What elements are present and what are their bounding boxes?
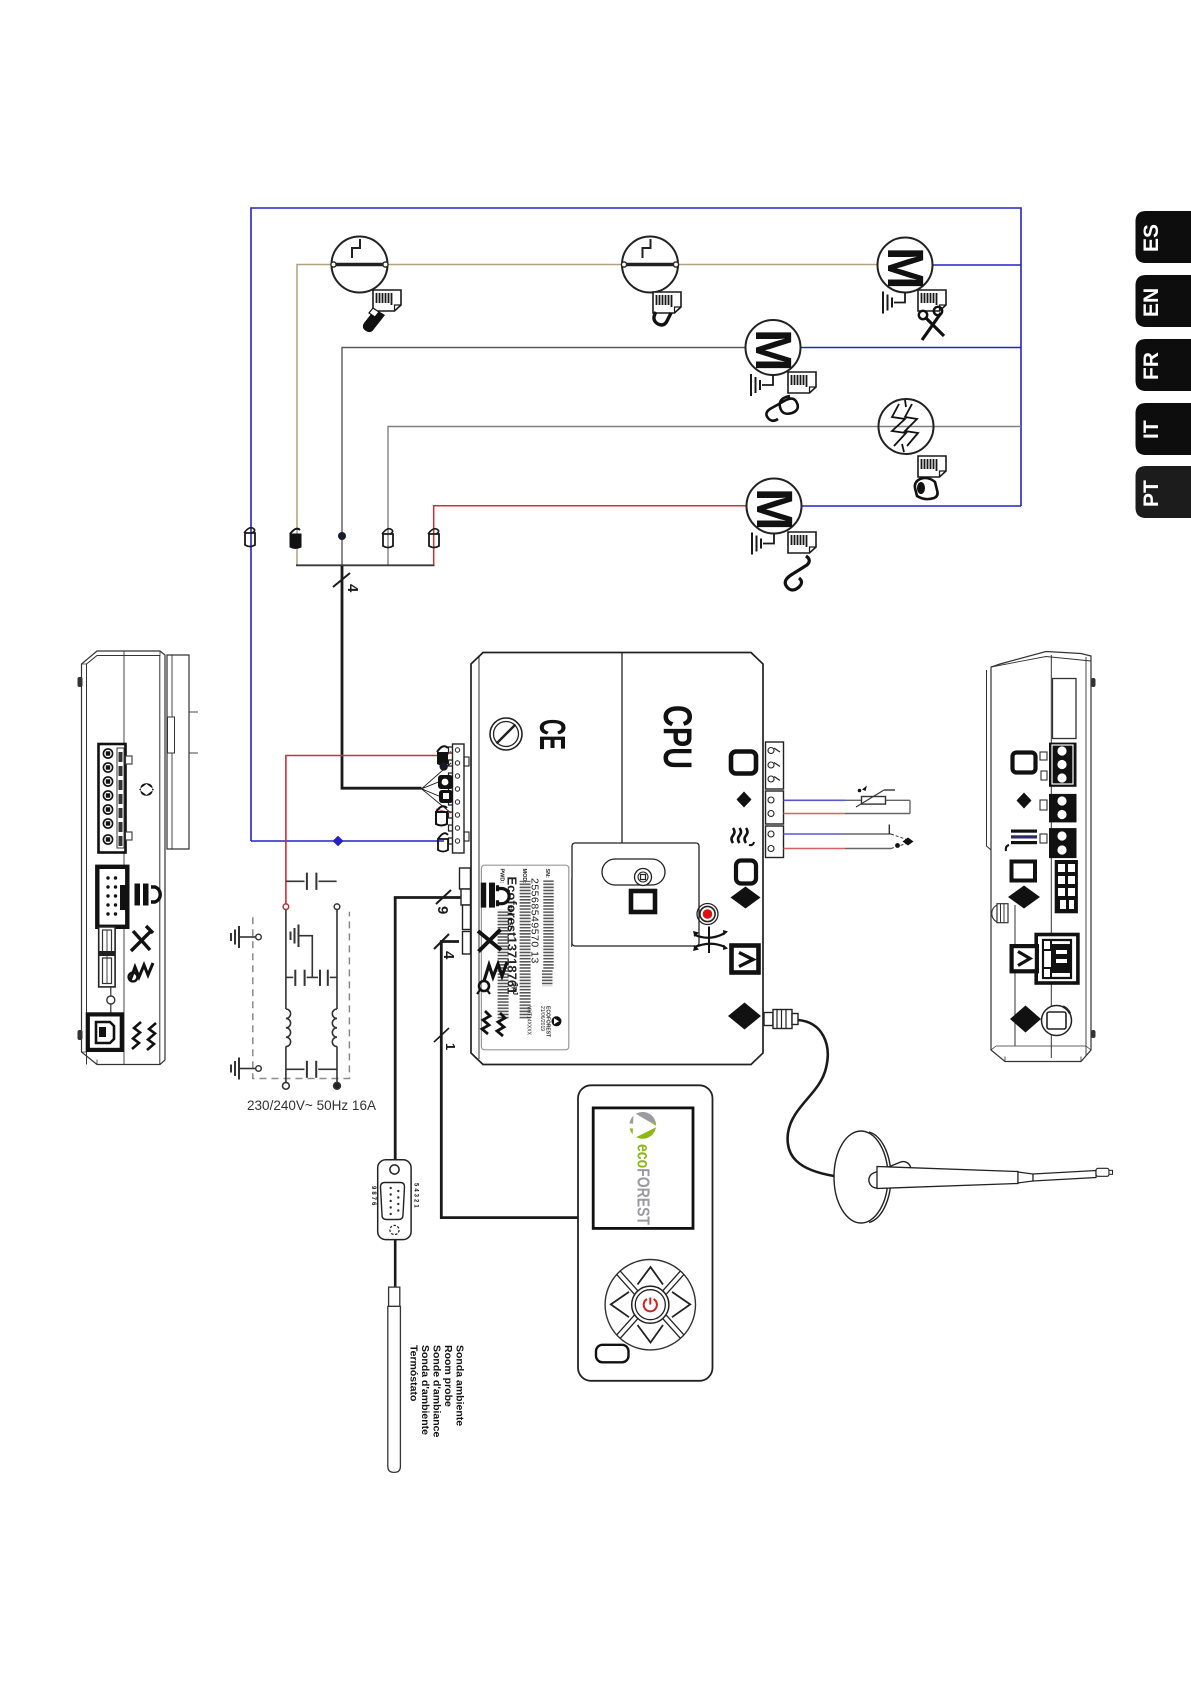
doc icon M1 scissors [918, 290, 946, 340]
svg-text:4: 4 [440, 951, 457, 960]
red fan to strip [436, 751, 451, 813]
ground motor M1 [883, 292, 905, 314]
connector housing at strip [438, 775, 453, 803]
CPU enclosure inner seam [479, 653, 755, 1060]
capacitors CY mid pair [286, 970, 337, 986]
filter line N vertical [336, 910, 338, 1083]
doc icon igniter [915, 456, 946, 499]
smoke probe flange [834, 1131, 891, 1223]
svg-text:230/240V~ 50Hz 16A: 230/240V~ 50Hz 16A [247, 1098, 376, 1113]
safety thermostat switch 1 [331, 237, 388, 293]
right panel nub bottom [1091, 1030, 1096, 1038]
ground motor M3 [752, 533, 774, 555]
faston at strip lower [436, 806, 447, 825]
ash icon [736, 861, 756, 884]
DB9 connector body [378, 1160, 411, 1240]
display handset body [578, 1085, 713, 1381]
left panel zigzag icon [129, 963, 153, 981]
DB9 pins [390, 1187, 400, 1215]
doc icon M3 hook [785, 532, 816, 590]
svg-text:VHT14XXXX: VHT14XXXX [526, 1006, 532, 1036]
svg-text:21/06/2019: 21/06/2019 [539, 1006, 545, 1031]
wire red to motor M3 [434, 506, 774, 565]
wire olive phase through switches [297, 265, 905, 566]
svg-text:CPU: CPU [655, 705, 699, 769]
diamond mid [731, 887, 761, 909]
relay window [631, 891, 655, 912]
svg-text:Sonde d'ambiance: Sonde d'ambiance [431, 1345, 443, 1438]
DB9 shell [381, 1183, 405, 1220]
smoke probe connector [764, 1010, 798, 1029]
svg-text:M: M [746, 488, 803, 530]
room probe sleeve [389, 1287, 400, 1306]
language tab ES [1136, 211, 1191, 263]
svg-text:1: 1 [443, 1043, 458, 1050]
motor M2 auger [745, 320, 802, 375]
EMI filter dashed enclosure [253, 912, 350, 1079]
ecoforest logo mark [626, 1109, 658, 1141]
convection icon [693, 927, 728, 954]
filter terminal N top [334, 904, 340, 910]
bundle marker 4 [333, 573, 361, 593]
smoke probe handle [867, 1159, 914, 1190]
wire gray to motor M2 [342, 348, 773, 566]
silkscreen X [478, 930, 501, 952]
left panel IDC connector [97, 867, 127, 927]
CPU enclosure [471, 653, 763, 1065]
language tab IT [1136, 403, 1191, 455]
diamond small [737, 792, 752, 808]
filter line L vertical [285, 910, 287, 1083]
diamond bottom [728, 1003, 761, 1030]
svg-text:Sonda ambiente: Sonda ambiente [454, 1345, 466, 1426]
room probe wire below DB9 [394, 1240, 397, 1289]
smoke probe cable [788, 1020, 834, 1176]
left panel ground icon [135, 884, 161, 906]
hopper icon [731, 752, 756, 774]
room probe tip [889, 825, 913, 849]
right panel terminal block B [1049, 794, 1077, 823]
right panel knob [992, 904, 1008, 923]
left panel bracket [167, 655, 198, 849]
faston terminal on blue wire [244, 528, 255, 547]
svg-text:9876: 9876 [370, 1186, 376, 1207]
display port 4p [463, 932, 471, 955]
CPU area divider [621, 653, 623, 844]
right panel stripe icon [1006, 830, 1037, 852]
svg-text:PT: PT [1140, 480, 1163, 507]
svg-text:SN:: SN: [544, 869, 550, 879]
status LED [697, 904, 718, 925]
silkscreen omega [477, 981, 490, 994]
right panel door [1053, 679, 1077, 739]
output terminal group C [766, 826, 784, 858]
board edge line [571, 878, 573, 947]
wire fan to strip [422, 763, 452, 813]
left panel thermostat icon [131, 926, 153, 951]
NTC probe wires [784, 800, 911, 813]
ground motor M2 [751, 374, 773, 396]
igniter resistor [879, 399, 934, 454]
right panel terminal block A [1049, 743, 1077, 787]
right panel grid connector [1055, 860, 1078, 913]
capacitor CX bottom [286, 1061, 337, 1078]
right panel hopper icon [1013, 753, 1036, 773]
feed icon [732, 946, 759, 973]
inductor L1 [286, 1009, 291, 1047]
right panel screw nub [1091, 678, 1096, 687]
motor M3 exchanger fan [746, 479, 803, 534]
cover screw [490, 718, 522, 750]
left panel screw top [78, 677, 83, 687]
junction dot [338, 532, 346, 540]
capacitor CX top [286, 873, 337, 890]
blue wire arrow marker [333, 836, 344, 846]
svg-text:ES: ES [1140, 224, 1163, 252]
right panel inner line [1014, 905, 1016, 1046]
fume icon [732, 828, 755, 845]
faston blue at strip [438, 833, 448, 851]
right panel diamond B [1008, 886, 1040, 909]
wire blue mains loop [251, 208, 1021, 841]
mains terminal strip [449, 744, 470, 853]
language tab EN [1136, 275, 1191, 327]
wire blue motor M1 to bus [905, 264, 1021, 266]
silkscreen ground bars [481, 883, 495, 908]
faston terminal on olive wire [290, 529, 301, 549]
faston terminal on igniter wire [382, 529, 393, 548]
wire blue neutral to CPU connector [251, 840, 444, 842]
left panel mains connector [99, 744, 133, 853]
room probe body [388, 1306, 401, 1472]
right panel diamond C [1010, 1006, 1041, 1033]
motor M1 extractor [877, 238, 934, 293]
navigation pad [605, 1260, 695, 1350]
left panel usb link [107, 987, 115, 1015]
language tab FR [1136, 339, 1191, 391]
bundle marker 9 [434, 890, 451, 914]
junction dot at strip [440, 762, 448, 770]
left panel wave icons [132, 1022, 156, 1050]
svg-text:ecoFOREST: ecoFOREST [634, 1144, 654, 1225]
language tab PT [1136, 466, 1191, 518]
doc icon M2 spring [766, 372, 816, 421]
right panel diamond A [1017, 793, 1032, 809]
svg-text:Termóstato: Termóstato [408, 1345, 420, 1401]
relay cover [572, 843, 699, 946]
junction bus bar [296, 564, 435, 566]
display cable 9x [395, 898, 470, 1160]
wire blue motor M2 to bus [773, 347, 1021, 349]
output terminal group A [766, 742, 784, 789]
svg-text:4: 4 [344, 584, 361, 593]
bundle marker 4b [434, 934, 457, 960]
bundle marker 1 [434, 1028, 458, 1050]
right panel feed icon [1012, 946, 1037, 971]
display cable 4x [441, 942, 577, 1218]
svg-text:M: M [877, 247, 934, 289]
room probe wires [784, 834, 892, 849]
silkscreen squiggle b [497, 1013, 505, 1036]
svg-text:3P0 0.5C: 3P0 0.5C [506, 905, 512, 931]
relay slot oval [602, 859, 665, 885]
left panel mini-USB [88, 1014, 122, 1050]
display screen [593, 1108, 693, 1229]
doc icon switch 1 [363, 290, 401, 332]
left panel edge connector [99, 927, 115, 987]
NTC thermistor [856, 786, 895, 808]
doc icon switch 2 [653, 292, 681, 325]
relay screw [635, 869, 652, 886]
svg-text:M: M [745, 329, 802, 371]
silkscreen zigzag M [484, 962, 507, 981]
silkscreen squiggle a [482, 1011, 490, 1034]
left panel body [82, 651, 166, 1065]
svg-text:Sonda d'ambiente: Sonda d'ambiente [419, 1345, 431, 1435]
svg-text:CE: CE [532, 719, 573, 750]
filter mid ground [291, 925, 313, 978]
left panel screw bottom [78, 1030, 83, 1040]
svg-text:3pJ: 3pJ [511, 983, 518, 995]
DB9 screw hole top [390, 1165, 399, 1174]
svg-text:PWD:: PWD: [499, 869, 505, 884]
filter terminal L top [283, 904, 289, 910]
wire blue motor M3 to bus [774, 505, 1021, 507]
wire red mains to CPU [286, 756, 438, 907]
right panel ash icon [1012, 862, 1036, 881]
right panel terminal block C [1049, 828, 1077, 858]
right panel speaker [1042, 1006, 1072, 1036]
DB9 screw hole bottom [390, 1225, 399, 1234]
earth stub top [231, 926, 261, 948]
smoke probe rod [877, 1167, 1113, 1189]
svg-text:54321: 54321 [413, 1183, 419, 1210]
silkscreen horseshoe [498, 885, 510, 906]
svg-text:Room probe: Room probe [442, 1345, 454, 1407]
svg-text:IT: IT [1140, 420, 1163, 439]
svg-text:FR: FR [1140, 352, 1163, 380]
right panel connector tabs [1040, 752, 1047, 843]
display menu button [596, 1345, 629, 1363]
mains terminal N [334, 1082, 341, 1089]
svg-text:EN: EN [1140, 288, 1163, 317]
safety thermostat switch 2 [621, 237, 678, 293]
svg-text:9: 9 [434, 906, 451, 914]
CPU serial label [481, 865, 568, 1050]
mains terminal L [283, 1082, 290, 1089]
right panel RJ11 [1036, 935, 1078, 984]
output terminal group B [766, 791, 784, 824]
wire gray to igniter [388, 427, 1021, 566]
faston terminal on red wire [428, 529, 439, 548]
right panel body [987, 652, 1092, 1062]
display port 9p [460, 868, 471, 930]
left panel diamond [139, 783, 154, 796]
earth stub bottom [231, 1058, 261, 1080]
mains bundle wire 4x [342, 566, 422, 788]
faston red at strip [437, 746, 448, 765]
inductor L2 [332, 1009, 337, 1047]
room probe label list [408, 1345, 466, 1438]
